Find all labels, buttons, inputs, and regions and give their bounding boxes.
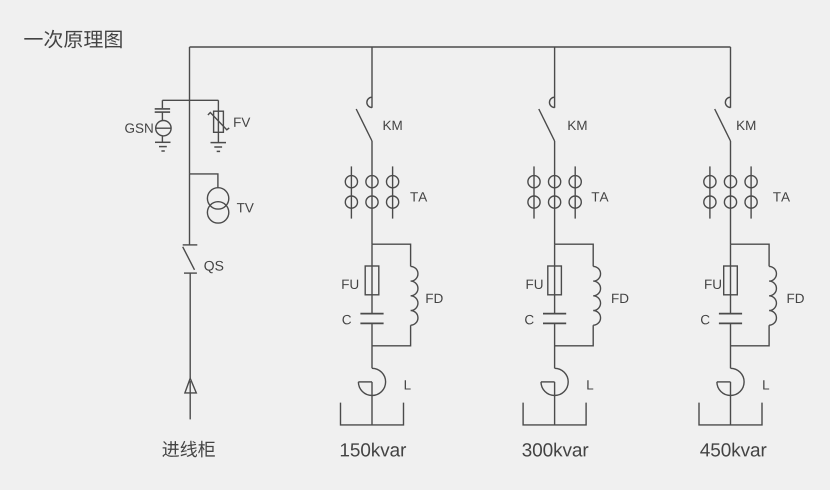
series reactor L feeder 2 (541, 368, 568, 395)
label FD feeder 2 (612, 294, 628, 303)
wire branch to FU feeder 3 (730, 244, 732, 266)
label FU feeder 3 (705, 280, 721, 289)
wire below arrow (189, 381, 191, 419)
wire C to series reactor feeder 2 (554, 323, 556, 368)
reactor coil FD feeder 1 (411, 266, 418, 325)
reactor coil FD feeder 3 (769, 266, 776, 325)
label KM feeder 1 (384, 121, 402, 130)
ground GSN (155, 142, 171, 151)
contactor KM feeder 1 (356, 97, 372, 141)
wire FU to C feeder 3 (730, 295, 732, 313)
cabinet bracket feeder 1 (341, 403, 404, 425)
wire filter branch top feeder 3 (731, 244, 770, 266)
incoming main wire (branch to TV tap) (189, 100, 191, 174)
contactor KM feeder 2 (539, 97, 555, 141)
label C feeder 1 (342, 315, 351, 325)
voltage transformer TV (207, 188, 228, 223)
capacitor C feeder 3 (719, 314, 742, 324)
series reactor L feeder 1 (358, 368, 385, 395)
wire reactor to cabinet feeder 2 (554, 382, 556, 425)
wire C to series reactor feeder 3 (730, 323, 732, 368)
fuse FU feeder 3 (724, 266, 738, 295)
label TA feeder 3 (773, 192, 790, 201)
label FU feeder 2 (527, 280, 543, 289)
feeder 2 drop wire from bus (554, 47, 556, 108)
title text 一次原理图 (24, 30, 121, 48)
label 450kvar feeder 3 (700, 443, 766, 457)
label FD feeder 1 (426, 294, 442, 303)
label TA feeder 1 (410, 192, 427, 201)
wire KM to TA feeder 1 (371, 141, 373, 244)
label C feeder 3 (701, 315, 710, 325)
cabinet bracket feeder 2 (523, 403, 586, 425)
reactor coil FD feeder 2 (593, 266, 600, 325)
current transformer TA feeder 1 (345, 166, 398, 218)
wire GSN indicator to ground (161, 136, 163, 142)
incoming main wire (QS to arrow) (189, 273, 191, 378)
label TA feeder 2 (592, 192, 609, 201)
label 300kvar feeder 2 (522, 443, 588, 457)
label QS (204, 261, 223, 273)
wire GSN leg (161, 100, 163, 108)
wire FV leg (217, 100, 219, 111)
capacitor C feeder 2 (543, 314, 566, 324)
series reactor L feeder 3 (717, 368, 744, 395)
capacitor C feeder 1 (360, 314, 383, 324)
label 150kvar feeder 1 (341, 443, 406, 457)
wire GSN cap to indicator (161, 112, 163, 120)
label TV (237, 203, 254, 212)
fuse FU feeder 2 (548, 266, 562, 295)
cabinet bracket feeder 3 (699, 403, 762, 425)
label FV (234, 118, 250, 127)
wire TV tap (190, 174, 218, 188)
label KM feeder 2 (568, 121, 586, 130)
incoming main wire (bus to GSN/FV branch) (189, 47, 191, 100)
disconnector QS (183, 245, 198, 273)
feeder 1 drop wire from bus (371, 47, 373, 108)
wire branch to FU feeder 1 (371, 244, 373, 266)
wire filter branch bottom feeder 1 (372, 325, 411, 346)
label L feeder 3 (763, 380, 769, 389)
wire KM to TA feeder 3 (730, 141, 732, 244)
label FU feeder 1 (342, 280, 358, 289)
label L feeder 1 (405, 380, 411, 389)
GSN live-line indicator circle (156, 121, 171, 136)
wire reactor to cabinet feeder 1 (371, 382, 373, 425)
surge arrester FV (208, 111, 229, 132)
wire GSN-FV branch (162, 99, 218, 101)
capacitor of GSN sensor (155, 109, 170, 112)
ground FV (211, 143, 227, 152)
wire filter branch bottom feeder 3 (731, 325, 770, 346)
label C feeder 2 (525, 315, 534, 325)
wire C to series reactor feeder 1 (371, 323, 373, 368)
label 进线柜 (162, 441, 214, 458)
feeder 3 drop wire from bus (730, 47, 732, 108)
incoming supply arrow (185, 378, 196, 393)
wire FU to C feeder 1 (371, 295, 373, 313)
current transformer TA feeder 3 (704, 166, 757, 218)
label FD feeder 3 (788, 294, 804, 303)
incoming main wire (TV tap to QS) (189, 174, 191, 245)
current transformer TA feeder 2 (528, 166, 581, 218)
wire FU to C feeder 2 (554, 295, 556, 313)
label KM feeder 3 (737, 121, 755, 130)
wire FV to ground (217, 132, 219, 142)
wire filter branch top feeder 2 (555, 244, 594, 266)
contactor KM feeder 3 (715, 97, 731, 141)
fuse FU feeder 1 (365, 266, 379, 295)
wire filter branch bottom feeder 2 (555, 325, 594, 346)
wire filter branch top feeder 1 (372, 244, 411, 266)
wire branch to FU feeder 2 (554, 244, 556, 266)
bus wire (190, 46, 731, 48)
label L feeder 2 (587, 380, 593, 389)
label GSN (125, 123, 152, 133)
wire reactor to cabinet feeder 3 (730, 382, 732, 425)
wire KM to TA feeder 2 (554, 141, 556, 244)
